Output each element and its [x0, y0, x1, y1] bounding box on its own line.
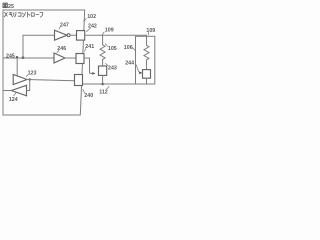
svg-text:124: 124	[9, 97, 18, 103]
wire inverter output to pad 242	[70, 34, 76, 36]
leader for 123	[26, 75, 28, 77]
svg-text:109: 109	[105, 28, 114, 34]
svg-text:240: 240	[84, 93, 93, 99]
leader for 112	[107, 86, 109, 89]
svg-text:123: 123	[28, 71, 37, 77]
wire pad 244 to bottom bus	[146, 78, 148, 84]
resistor 108 bottom lead	[146, 60, 148, 70]
chip box memory controller 102	[3, 10, 85, 115]
leader for 247	[59, 27, 60, 29]
arrowhead into pad 243	[92, 72, 95, 75]
svg-text:245: 245	[6, 54, 15, 60]
tri-state driver 123	[13, 75, 27, 85]
receiver 124	[12, 85, 27, 96]
inverter 247 bubble	[67, 34, 70, 37]
wire buffer output to pad 241	[65, 57, 76, 59]
resistor 108 zigzag	[144, 45, 149, 60]
chip label text メモリコントローラ (pseudo glyphs)	[4, 12, 43, 17]
junction dot at driver output	[29, 78, 31, 80]
leader for 109 left	[102, 32, 104, 35]
enable wire into driver 123	[16, 58, 18, 76]
pad 241	[76, 54, 84, 64]
wire branch up to inverter 247	[23, 35, 55, 57]
wire node down into receiver 124 input	[27, 80, 30, 91]
memory device box 106	[136, 36, 155, 84]
leader for 240	[83, 90, 85, 93]
control wire from pad 241 toward pad 243	[84, 58, 93, 73]
junction dot at enable branch	[16, 56, 18, 58]
arrowhead into pad 244	[139, 71, 142, 74]
leader for 106	[132, 47, 135, 50]
leader for 109 right	[147, 32, 150, 35]
bus wire 109	[85, 34, 147, 36]
leader for 243	[105, 64, 108, 66]
wire receiver 124 output to chip edge	[3, 90, 12, 92]
svg-text:25: 25	[8, 4, 14, 10]
pad 240	[75, 75, 83, 86]
resistor 105 top lead	[102, 35, 104, 45]
pad 243	[99, 66, 107, 75]
wire net 245 horizontal	[3, 57, 54, 59]
svg-text:102: 102	[87, 14, 96, 20]
svg-text:106: 106	[124, 45, 133, 51]
leader for 242	[87, 28, 91, 32]
wire driver output to pad 240	[27, 80, 75, 81]
svg-text:242: 242	[88, 23, 97, 29]
leader for 105	[105, 44, 107, 47]
leader for 124	[14, 93, 16, 96]
wire pad 243 to bottom bus	[102, 75, 104, 84]
junction dot on bottom bus	[101, 83, 104, 86]
leader for 244	[136, 65, 139, 72]
junction dot at inverter branch	[22, 56, 25, 59]
svg-text:105: 105	[108, 46, 117, 52]
resistor 108 top lead	[146, 35, 148, 45]
buffer 246	[54, 53, 65, 63]
svg-text:241: 241	[85, 44, 94, 50]
pad 242	[77, 31, 85, 40]
figure title kanji 図	[3, 3, 7, 8]
resistor 105 zigzag	[100, 45, 105, 60]
leader for 241	[85, 49, 86, 52]
bottom bus wire 112	[83, 83, 147, 85]
leader for 102	[84, 19, 87, 22]
svg-text:109: 109	[146, 28, 155, 34]
resistor 105 bottom lead	[102, 59, 104, 66]
pad 244	[143, 70, 151, 79]
svg-text:112: 112	[99, 90, 108, 96]
svg-text:247: 247	[60, 22, 69, 28]
leader for 246	[57, 50, 59, 52]
inverter 247	[55, 30, 68, 40]
svg-text:243: 243	[108, 66, 117, 72]
svg-text:244: 244	[125, 60, 134, 66]
